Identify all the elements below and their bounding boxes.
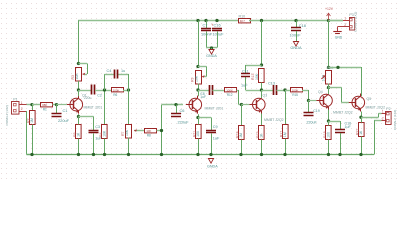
- svg-text:220uF: 220uF: [58, 118, 70, 123]
- capacitor C17: [335, 122, 351, 133]
- wire: Q4 collector up: [328, 88, 330, 95]
- svg-text:C18: C18: [299, 23, 306, 28]
- wire: Q3 collector node to C13: [262, 90, 274, 92]
- wire: C19 stub: [308, 101, 310, 113]
- svg-text:1uF: 1uF: [345, 125, 352, 129]
- node: Q1 base node: [55, 103, 58, 106]
- resistor R14: [236, 126, 245, 140]
- resistor R4: [99, 125, 107, 139]
- svg-text:MMBT J2Q2: MMBT J2Q2: [333, 110, 353, 114]
- svg-text:2: 2: [21, 107, 23, 111]
- wire: R7 wiper to R8: [134, 129, 145, 132]
- pin stub: P3 pin 2: [342, 23, 349, 27]
- svg-text:100: 100: [327, 132, 331, 138]
- svg-text:100K: 100K: [226, 88, 233, 92]
- capacitor C6: [171, 108, 189, 125]
- wire: C18 bottom lead: [296, 31, 298, 41]
- svg-text:CONN-2 (1X2): CONN-2 (1X2): [354, 12, 358, 32]
- wire: C3 to ground rail: [93, 134, 95, 155]
- wire: C8 to R12: [213, 90, 225, 92]
- wire: Q2 base horizontal: [162, 104, 184, 106]
- svg-text:CONN-2 (1X2): CONN-2 (1X2): [5, 105, 9, 125]
- svg-text:1K: 1K: [77, 132, 81, 137]
- resistor R15: [256, 126, 264, 140]
- node: rail junction R18: [327, 153, 330, 156]
- svg-text:1u: 1u: [121, 69, 125, 73]
- wire: Q3 emitter down to R15: [261, 114, 263, 126]
- wire: R18 to ground rail: [328, 140, 330, 155]
- wire: R20 top to Q5 collector: [329, 67, 362, 96]
- resistor R16: [291, 88, 303, 97]
- node: Q5 emitter node: [359, 116, 362, 119]
- svg-text:10K: 10K: [125, 129, 129, 136]
- svg-text:P2: P2: [386, 107, 390, 111]
- node: R9 top: [196, 65, 199, 68]
- wire: C6 stub: [176, 105, 178, 114]
- svg-text:10K: 10K: [103, 130, 107, 137]
- wire: R20 to Q4 collector node: [328, 84, 330, 88]
- resistor R18: [323, 126, 331, 140]
- node: supply junction C18: [294, 19, 297, 22]
- svg-text:100: 100: [196, 131, 200, 137]
- svg-text:R13: R13: [251, 74, 255, 80]
- resistor R12: [225, 88, 237, 97]
- wire: R4 to ground rail: [104, 139, 106, 155]
- wire: R6 to volume node: [123, 90, 129, 92]
- wire: C9 to ground rail: [211, 134, 213, 155]
- wire: R15 to ground rail: [261, 140, 263, 155]
- wire: Q1 collector node to C2: [79, 90, 92, 92]
- wire: top supply rail right segment: [249, 20, 343, 22]
- wire: C17 to ground rail: [340, 133, 342, 155]
- svg-text:C11: C11: [242, 70, 249, 74]
- power +12V: [325, 7, 334, 21]
- wire: supply down to R20: [328, 21, 330, 68]
- resistor R2: [27, 111, 35, 125]
- node: volume node: [127, 88, 130, 91]
- node: decoupling ground junction: [210, 46, 213, 49]
- svg-text:2: 2: [382, 117, 384, 121]
- trimmer R3: [71, 68, 82, 82]
- transistor Q5: [349, 94, 385, 112]
- node: R17 node: [283, 88, 286, 91]
- resistor R8: [145, 129, 157, 138]
- transistor Q1: [67, 94, 103, 114]
- node: rail junction R7: [127, 153, 130, 156]
- wire: supply down to R9: [198, 21, 200, 67]
- wire: emitter node to C17: [329, 121, 341, 130]
- wire: Q4 emitter down: [328, 110, 330, 122]
- svg-text:P1: P1: [13, 98, 17, 102]
- ground GNDA (C18): [290, 42, 302, 51]
- node: R3 top: [77, 62, 80, 65]
- wire: Q2 base column vertical: [161, 105, 163, 155]
- wire: Q3 base wire: [242, 104, 250, 106]
- wire: Q2 collector up: [198, 90, 200, 96]
- svg-text:R6: R6: [113, 93, 117, 97]
- capacitor C3: [89, 125, 103, 140]
- svg-text:C13: C13: [268, 82, 275, 86]
- svg-text:R10: R10: [239, 14, 246, 18]
- wire: R11 to ground rail: [198, 139, 200, 155]
- node: Q2 base column junction: [160, 129, 163, 132]
- node: Q1 emitter node: [77, 115, 80, 118]
- svg-text:R8: R8: [147, 133, 151, 137]
- wire: collector node to R4: [104, 90, 106, 125]
- capacitor C18: [290, 23, 306, 37]
- wire: C4 parallel loop: [105, 74, 129, 90]
- node: R20 top: [327, 66, 330, 69]
- wire: R3 to Q1 collector node: [78, 81, 80, 90]
- svg-text:C2: C2: [97, 93, 102, 97]
- svg-text:GNDA: GNDA: [206, 54, 217, 58]
- svg-text:MMBT J2Q2: MMBT J2Q2: [264, 118, 284, 122]
- node: rail junction R2: [30, 153, 33, 156]
- capacitor C9: [206, 125, 220, 140]
- wire: R17 to ground rail: [285, 139, 287, 155]
- wire: R16 to Q4 base node: [302, 90, 309, 101]
- label: P1 CONN-2 (1X2): [5, 105, 9, 125]
- wire: supply rail down to R3: [78, 21, 80, 64]
- ground GND (P3): [333, 32, 343, 40]
- svg-text:GNDA: GNDA: [207, 165, 218, 169]
- node: rail junction R21: [359, 153, 362, 156]
- resistor R21: [356, 123, 365, 137]
- node: Q4 base node: [307, 99, 310, 102]
- transistor Q3: [249, 94, 283, 122]
- wire: base node to C1: [56, 105, 58, 114]
- trimmer R20: [322, 66, 334, 84]
- wire: R5 to ground rail: [78, 139, 80, 155]
- wire: supply down to R13: [261, 21, 263, 66]
- svg-text:1K: 1K: [260, 133, 264, 138]
- node: Q2 collector node: [196, 88, 199, 91]
- capacitor C7: [201, 22, 213, 36]
- node: Q2 emitter node: [196, 116, 199, 119]
- svg-text:1uF: 1uF: [213, 137, 220, 141]
- wire: C7 bottom lead: [206, 32, 208, 48]
- svg-text:4K7: 4K7: [240, 19, 246, 23]
- svg-text:MMBT J201: MMBT J201: [205, 106, 224, 110]
- wire: volume node down to R7: [128, 90, 130, 124]
- resistor R6: [112, 88, 124, 97]
- node: rail junction R14: [239, 153, 242, 156]
- capacitor C8: [200, 85, 212, 99]
- svg-text:100K: 100K: [113, 88, 120, 92]
- node: supply junction Q2 column: [196, 19, 199, 22]
- capacitor C1: [52, 108, 70, 123]
- wire: bottom ground rail: [27, 154, 375, 156]
- label: P2 CONN-2 (1X2): [393, 110, 397, 130]
- wire: R17 node to R16: [285, 90, 290, 92]
- svg-text:GND: GND: [335, 36, 343, 40]
- wire: Q1 base wire: [57, 104, 67, 106]
- wire: Q3 collector up: [261, 90, 263, 98]
- node: rail junction R17: [283, 153, 286, 156]
- wire: emitter node to C3: [79, 117, 94, 131]
- pin stub: P1 pin 2: [19, 107, 27, 111]
- node: R20 loop junction: [336, 66, 339, 69]
- node: supply junction C7: [204, 19, 207, 22]
- svg-text:2: 2: [344, 23, 346, 27]
- svg-text:1M: 1M: [283, 132, 287, 137]
- resistor R17: [280, 125, 289, 139]
- svg-text:C19: C19: [313, 109, 320, 113]
- wire: Q5 emitter to P2 pin1: [361, 113, 382, 117]
- node: Q3 collector node: [260, 88, 263, 91]
- svg-text:1: 1: [21, 101, 23, 105]
- svg-text:1: 1: [382, 109, 384, 113]
- wire: Q2 collector node to C8: [198, 90, 209, 92]
- transistor Q4: [317, 90, 353, 115]
- node: Q1 collector node: [77, 88, 80, 91]
- node: rail junction R5: [77, 153, 80, 156]
- wire: +12V rail to P3 pin 1: [329, 20, 344, 22]
- wire: Q2 emitter down: [198, 114, 200, 117]
- svg-text:MMBT J201: MMBT J201: [84, 106, 103, 110]
- resistor R10: [239, 14, 251, 23]
- svg-text:100nF: 100nF: [290, 32, 302, 37]
- wire: R12 to Q3 base: [237, 90, 242, 105]
- svg-text:10K: 10K: [194, 75, 198, 82]
- wire: Q1 emitter down: [78, 114, 80, 116]
- pin stub: P2 pin 1: [382, 109, 387, 113]
- svg-text:C1: C1: [63, 108, 68, 113]
- connector P1: [12, 98, 20, 115]
- wiper arrow R20: [321, 75, 326, 79]
- svg-text:R1: R1: [43, 108, 47, 112]
- node: supply junction C16: [215, 19, 218, 22]
- svg-text:10K: 10K: [255, 73, 259, 80]
- wire: Q4 collector to Q5 base: [329, 88, 350, 103]
- svg-text:10K: 10K: [146, 129, 151, 133]
- pin stub: P1 pin 1: [19, 101, 27, 105]
- svg-text:100K: 100K: [292, 88, 299, 92]
- svg-text:C4: C4: [107, 69, 112, 73]
- capacitor C11: [241, 70, 250, 88]
- svg-text:1K: 1K: [359, 130, 363, 135]
- svg-text:100uF: 100uF: [213, 32, 225, 37]
- svg-text:1M: 1M: [239, 133, 243, 138]
- wire: R8 to Q2 base column: [157, 130, 162, 132]
- capacitor C19: [304, 109, 320, 124]
- wire: ground stub: [211, 48, 213, 50]
- resistor R11: [193, 125, 202, 139]
- capacitor C13: [268, 82, 277, 95]
- svg-text:1uF: 1uF: [241, 83, 248, 87]
- wire: P3 pin 2 to GND: [338, 27, 343, 32]
- wire: R3 wiper loop: [79, 64, 88, 76]
- wire: Q5 emitter to R21: [361, 117, 363, 122]
- node: rail junction C17: [338, 153, 341, 156]
- connector P2: [386, 107, 392, 124]
- wire: P2 pin2 down to ground rail: [374, 120, 382, 154]
- svg-text:+12V: +12V: [325, 7, 334, 11]
- wire: top supply rail left segment: [78, 20, 238, 22]
- wire: Q2 emitter to R11: [198, 118, 200, 125]
- wire: P1 pin1 to input node: [27, 104, 33, 106]
- node: supply junction +12V: [327, 19, 330, 22]
- wire: R7 to ground rail: [128, 138, 130, 155]
- node: Q4 collector node: [327, 86, 330, 89]
- transistor Q2: [186, 96, 224, 114]
- wire: P1 pin2 down to ground rail: [27, 111, 33, 155]
- svg-text:220u: 220u: [84, 96, 92, 100]
- svg-text:Q4: Q4: [318, 90, 323, 94]
- svg-text:CONN-2 (1X2): CONN-2 (1X2): [393, 110, 397, 130]
- wire: C13 to C12 node: [277, 90, 286, 92]
- svg-text:C9: C9: [213, 125, 218, 129]
- wire: Q1 emitter to R5: [78, 117, 80, 125]
- capacitor C16: [211, 22, 224, 36]
- node: Q4 emitter node: [327, 119, 330, 122]
- node: rail junction R4: [103, 153, 106, 156]
- node: C6 junction: [174, 103, 177, 106]
- wire: Q5 emitter down: [361, 112, 363, 118]
- svg-text:1: 1: [344, 17, 346, 21]
- trimmer R7: [121, 125, 132, 139]
- wire: R9 to Q2 collector node: [198, 84, 200, 91]
- node: R13 top: [260, 63, 263, 66]
- capacitor C2: [84, 85, 102, 100]
- svg-text:Q3: Q3: [263, 94, 268, 98]
- wire: Q1 collector up: [78, 90, 80, 96]
- pin stub: P3 pin 1: [343, 17, 349, 21]
- svg-text:C16: C16: [214, 22, 221, 27]
- wire: R21 to ground rail: [361, 137, 363, 155]
- wire: R1 to Q1 base node: [53, 104, 57, 106]
- svg-text:R12: R12: [227, 93, 233, 97]
- resistor R13: [251, 69, 264, 83]
- connector P3: [349, 13, 354, 30]
- svg-text:1M: 1M: [30, 118, 34, 123]
- svg-text:220uF: 220uF: [178, 120, 190, 125]
- svg-text:C6: C6: [180, 108, 185, 113]
- node: R6 left node: [103, 88, 106, 91]
- resistor R1: [41, 103, 53, 112]
- wire: C7 top lead: [206, 21, 208, 29]
- wire: Q4 base wire: [309, 100, 317, 102]
- svg-text:C7: C7: [203, 22, 208, 27]
- wire: C16 bottom lead: [217, 32, 219, 48]
- wire: R17 node down: [285, 90, 287, 125]
- wire: C18 top lead: [296, 21, 298, 28]
- svg-text:Q5: Q5: [367, 97, 372, 101]
- wire: R13 to Q3 collector node: [261, 83, 263, 91]
- wire: Q3 base node down to R14: [241, 105, 243, 126]
- node: input node: [30, 103, 33, 106]
- trimmer R9: [190, 71, 201, 85]
- label: P3 CONN-2 (1X2): [354, 12, 358, 32]
- svg-text:C3: C3: [95, 125, 100, 129]
- wire: C2 to R6 node: [95, 90, 111, 92]
- ground GNDA (rail): [207, 159, 218, 169]
- svg-text:68K: 68K: [42, 103, 47, 107]
- node: rail junction R15: [260, 153, 263, 156]
- wire: Q4 emitter to R18: [328, 121, 330, 126]
- wire: R2 to ground rail: [32, 125, 34, 155]
- svg-text:220uF: 220uF: [307, 121, 318, 125]
- svg-text:10K: 10K: [75, 73, 79, 80]
- wire: input node to R1: [32, 104, 41, 106]
- wire: R9 wiper loop: [198, 67, 207, 78]
- capacitor C4: [107, 69, 126, 78]
- node: supply junction Q3 column: [260, 19, 263, 22]
- node: rail junction C9: [209, 153, 212, 156]
- wire: R14 to ground rail: [241, 140, 243, 155]
- ground GNDA (decoupling): [206, 50, 217, 59]
- wire: input node to R2: [32, 105, 34, 111]
- wire: C7-C16 bottom join: [206, 47, 217, 49]
- svg-text:GNDA: GNDA: [290, 45, 302, 50]
- pin stub: P2 pin 2: [382, 117, 387, 121]
- svg-text:R16: R16: [292, 93, 298, 97]
- node: rail junction Q2 base column: [160, 153, 163, 156]
- node: rail junction C3: [92, 153, 95, 156]
- wire: C11 parallel loop: [246, 65, 262, 91]
- resistor R5: [73, 125, 81, 139]
- node: rail junction R11: [196, 153, 199, 156]
- wire: emitter node to C9: [198, 118, 212, 131]
- svg-text:1uF: 1uF: [200, 95, 206, 99]
- node: Q3 base node: [240, 103, 243, 106]
